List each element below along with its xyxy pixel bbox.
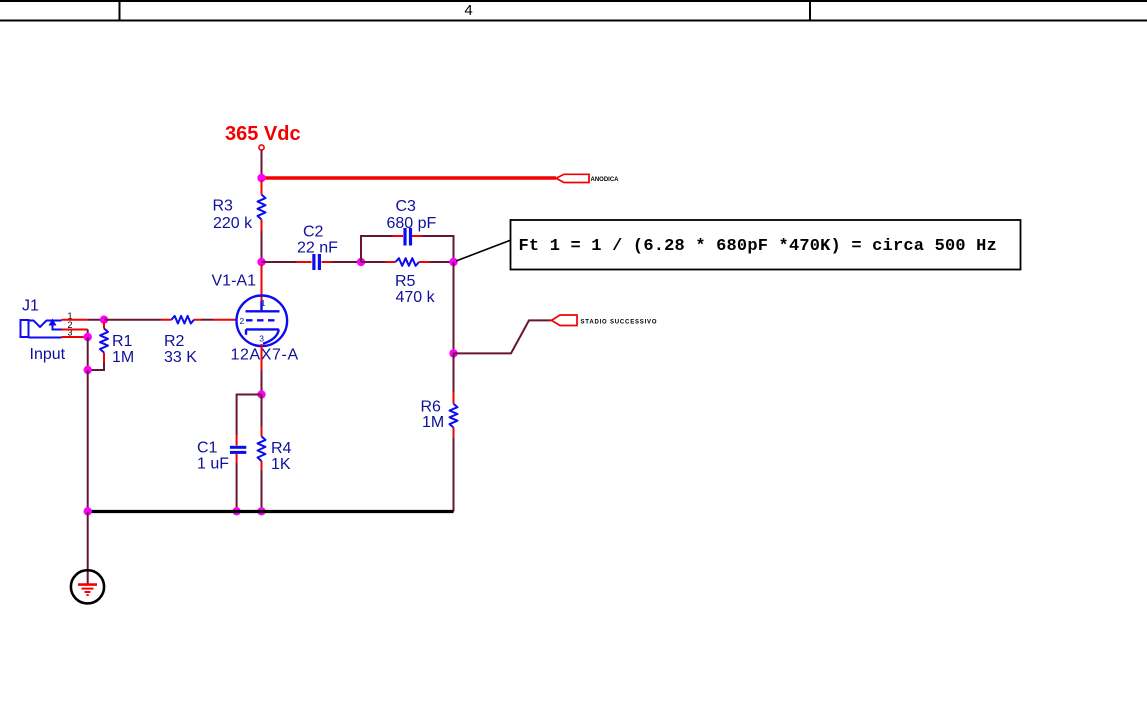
node: output/R6 (449, 349, 457, 357)
resistor R2 body (172, 316, 195, 324)
triode grid (dashed) (246, 319, 279, 321)
svg-text:R3: R3 (213, 198, 234, 215)
node: cathode/C1/R4 (257, 390, 265, 398)
svg-text:C2: C2 (303, 224, 324, 241)
wire node to C2 (262, 261, 297, 263)
jack tip arrow (49, 319, 57, 326)
svg-text:470 k: 470 k (396, 289, 436, 306)
note leader line (456, 240, 511, 261)
wire C1 bottom to bus (236, 463, 238, 512)
svg-text:680 pF: 680 pF (387, 215, 437, 232)
wire node to C1 top (237, 395, 262, 436)
svg-text:1K: 1K (271, 456, 291, 473)
svg-text:1M: 1M (422, 414, 444, 431)
wire C3 branch right vertical (423, 236, 454, 262)
svg-text:Input: Input (30, 346, 66, 363)
grid lead red (213, 319, 237, 321)
node: input/R1 junction (100, 316, 108, 324)
svg-text:R2: R2 (164, 333, 185, 350)
resistor R4 body (258, 436, 266, 461)
svg-text:33 K: 33 K (164, 349, 197, 366)
node: ground bus left (84, 507, 92, 515)
node: 365Vdc / R3 junction (257, 174, 265, 182)
wire R2 to grid lead (201, 319, 213, 321)
node: R4/bus (257, 507, 265, 515)
wire R6 bottom to bus (453, 437, 455, 511)
svg-text:22 nF: 22 nF (297, 240, 338, 257)
wire node to R4 top (261, 395, 263, 427)
resistor R5 leads (386, 261, 430, 263)
wire pin1 to R1 node (88, 319, 104, 321)
svg-text:1 uF: 1 uF (197, 456, 229, 473)
capacitor C2 plates (312, 254, 315, 270)
anode bus wire (thick red) (262, 176, 557, 179)
triode plate (246, 301, 280, 311)
resistor R4 leads (261, 427, 263, 470)
wire plate node down to output node (453, 262, 455, 353)
resistor R5 body (396, 258, 420, 266)
node: C1/bus (232, 507, 240, 515)
wire pin2 down to pin3 node (87, 330, 89, 338)
resistor R3 leads (261, 180, 263, 231)
resistor R6 body (450, 404, 458, 428)
power pin (open circle) (259, 145, 264, 150)
wire cathode to C1/R4 node (261, 371, 263, 395)
ground bus wire (thick black) (88, 510, 454, 513)
svg-text:C3: C3 (396, 198, 417, 215)
svg-text:12AX7-A: 12AX7-A (231, 347, 299, 364)
svg-text:220 k: 220 k (213, 215, 253, 232)
wire down to ground bus (87, 370, 89, 512)
node: R1/ground wire junction (84, 366, 92, 374)
wire C3 branch left vertical (361, 236, 393, 262)
wire R3 to grid node (261, 231, 263, 262)
node: C2/R5/C3 left junction (357, 258, 365, 266)
J1 pin leads (62, 320, 88, 337)
cathode lead red (261, 344, 263, 371)
svg-text:4: 4 (464, 2, 472, 19)
svg-text:Ft 1 = 1 / (6.28 * 680pF *470K: Ft 1 = 1 / (6.28 * 680pF *470K) = circa … (519, 237, 997, 256)
wire R1 node to R2 (104, 319, 161, 321)
capacitor C3 plates (403, 228, 406, 246)
node: R5/C3/output junction (449, 258, 457, 266)
capacitor C2 leads (297, 261, 332, 263)
resistor R1 leads (103, 322, 105, 363)
svg-text:R5: R5 (395, 273, 416, 290)
svg-text:2: 2 (240, 316, 245, 326)
capacitor C1 plates (230, 446, 246, 449)
svg-text:J1: J1 (22, 298, 39, 315)
node: J1 pin3 (84, 333, 92, 341)
wire power pin to anode bus (261, 150, 263, 178)
triode cathode (246, 329, 279, 343)
wire output node to connector (454, 320, 553, 353)
svg-text:C1: C1 (197, 440, 218, 457)
svg-text:ANODICA: ANODICA (591, 177, 620, 183)
wire R4 bottom to bus (261, 470, 263, 512)
wire R5 left (361, 261, 386, 263)
ground symbol circle (71, 570, 104, 603)
triode envelope circle (236, 296, 287, 347)
svg-text:V1-A1: V1-A1 (212, 273, 257, 290)
resistor R3 body (258, 195, 266, 220)
note box (511, 220, 1021, 270)
capacitor C3 leads (393, 235, 423, 237)
capacitor C1 leads (236, 435, 238, 463)
svg-text:3: 3 (259, 334, 264, 344)
resistor R6 leads (453, 392, 455, 437)
wire C2 to R5 node (332, 261, 362, 263)
off-page connector STADIO SUCCESSIVO (552, 315, 658, 326)
svg-text:365 Vdc: 365 Vdc (225, 123, 301, 145)
off-page connector ANODICA (556, 174, 619, 183)
wire bus to ground symbol (87, 512, 89, 585)
plate lead red (261, 265, 263, 302)
svg-text:R1: R1 (112, 333, 133, 350)
wire output node to R6 (453, 353, 455, 392)
node: R3/C2/plate junction (257, 258, 265, 266)
svg-text:STADIO SUCCESSIVO: STADIO SUCCESSIVO (581, 319, 658, 325)
ground symbol earth bars (78, 585, 97, 595)
svg-text:1: 1 (261, 298, 266, 308)
wire pin3 node down (87, 337, 89, 370)
jack J1 body (21, 320, 62, 338)
resistor R1 body (100, 329, 108, 353)
wire R1 bottom to ground rail (88, 363, 104, 371)
svg-text:1M: 1M (112, 349, 134, 366)
resistor R2 leads (161, 319, 201, 321)
svg-text:R6: R6 (421, 399, 442, 416)
svg-text:R4: R4 (271, 440, 292, 457)
wire R5 right to node (430, 261, 454, 263)
